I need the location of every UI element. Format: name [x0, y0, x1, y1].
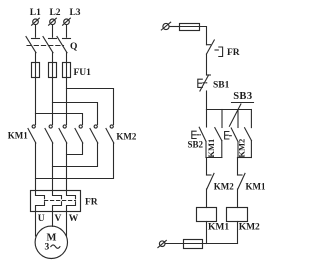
wire KM1 aux bottom [221, 141, 223, 158]
swap link KM2 c1 to phase3 [67, 143, 83, 155]
svg-text:KM1: KM1 [246, 182, 266, 192]
drop SB2 [206, 110, 208, 128]
FR heater 1 [36, 191, 45, 212]
KM1 coil [197, 208, 217, 222]
SB3 leader line [229, 104, 241, 126]
svg-text:FR: FR [227, 48, 240, 58]
svg-text:FU1: FU1 [74, 68, 92, 78]
control fuse top [180, 24, 200, 31]
wire KM1 coil to bottom bus [206, 222, 208, 244]
fuse FU1 element 3 [63, 63, 71, 78]
KM2 NC interlock [207, 173, 215, 189]
start button SB2 [192, 127, 206, 141]
svg-text:SB3: SB3 [233, 91, 252, 102]
KM1 aux contact [215, 128, 222, 141]
svg-text:W: W [69, 214, 79, 224]
svg-text:L3: L3 [69, 8, 80, 18]
control terminal bottom [158, 240, 166, 247]
switch Q pole 1 [26, 37, 40, 53]
wire phase1 down to KM1 contact [35, 78, 37, 125]
switch Q pole 3 [57, 37, 71, 53]
control terminal top [161, 22, 170, 30]
svg-text:KM1: KM1 [208, 223, 229, 233]
wire V to motor [52, 212, 54, 227]
KM2 main contact 2 [90, 125, 98, 143]
KM2 main contact 1 [75, 125, 83, 143]
wire phase3 down to KM1 contact [66, 78, 68, 125]
FR contact hook [219, 47, 223, 57]
left merge bar [206, 157, 222, 159]
motor tilde [51, 245, 60, 248]
svg-text:KM2: KM2 [214, 182, 234, 192]
wire FR to SB1 [206, 54, 208, 75]
drop KM1 aux [221, 110, 223, 128]
wire phase2 down to KM1 contact [52, 78, 54, 125]
terminal L3 [63, 18, 71, 25]
bottom bus [165, 243, 238, 245]
wire switch to fuse 1 [35, 53, 37, 63]
thermal relay FR box [31, 191, 81, 212]
FR NC contact [207, 40, 219, 54]
start button SB3 contact [225, 128, 238, 142]
svg-text:V: V [55, 214, 62, 224]
control bus [207, 109, 252, 111]
branch wire phase3 to KM2 right [67, 89, 114, 125]
KM1 main contact 3 [59, 125, 67, 143]
wire L1 to switch [35, 25, 37, 38]
svg-text:Q: Q [70, 42, 77, 52]
wire KM2 coil to bottom bus [237, 222, 239, 244]
KM2 coil [227, 208, 248, 222]
wire left branch to interlock [206, 158, 208, 176]
wire KM2 aux bottom [250, 141, 252, 158]
wire fuse to rail corner [200, 27, 207, 45]
svg-text:FR: FR [85, 198, 98, 208]
svg-text:SB2: SB2 [188, 140, 204, 150]
wire terminal to control fuse [169, 26, 179, 28]
switch Q pole 2 [43, 37, 57, 53]
switch Q linkage dashed [27, 45, 64, 47]
KM1 main contact 1 [28, 125, 36, 143]
wire interlock to KM1 coil [206, 189, 208, 208]
wire U to motor [35, 212, 37, 237]
FR linkage dashed [45, 200, 76, 202]
KM1 main contact 2 [45, 125, 53, 143]
wire L3 to switch [66, 25, 68, 38]
wire SB1 to bus [206, 91, 208, 110]
svg-text:3: 3 [45, 243, 50, 253]
terminal L2 [49, 18, 57, 25]
wire right branch to interlock [237, 158, 239, 176]
KM2 main contact 3 [106, 125, 114, 143]
swap link KM2 c2 to phase2 [53, 143, 98, 167]
svg-text:KM2: KM2 [239, 223, 260, 233]
FR heater 2 [53, 191, 62, 212]
KM2 aux contact [245, 128, 252, 141]
swap link KM2 c3 to phase1 [36, 143, 114, 179]
wire L2 to switch [52, 25, 54, 38]
terminal L1 [32, 18, 40, 25]
wire W to motor [66, 212, 68, 237]
wire KM1 c1 down to FR [35, 143, 37, 191]
wire SB3 bottom [237, 142, 239, 158]
svg-text:SB1: SB1 [213, 81, 230, 91]
wire KM1 c2 down to FR [52, 143, 54, 191]
wire switch to fuse 3 [66, 53, 68, 63]
fuse FU1 element 1 [32, 63, 40, 78]
wire switch to fuse 2 [52, 53, 54, 63]
fuse FU1 element 2 [49, 63, 57, 78]
drop KM2 aux [250, 110, 252, 128]
svg-text:U: U [38, 214, 45, 224]
KM1 NC interlock [238, 173, 246, 189]
branch wire phase1 to KM2 left [36, 114, 83, 125]
drop SB3 [237, 110, 239, 128]
branch wire phase2 to KM2 middle [53, 103, 98, 125]
svg-text:KM2: KM2 [116, 132, 136, 142]
wire KM1 c3 down to FR [66, 143, 68, 191]
motor M circle [35, 226, 67, 258]
svg-text:KM1: KM1 [206, 139, 216, 158]
svg-text:KM1: KM1 [8, 130, 28, 140]
SB3 label underline [232, 102, 254, 104]
right merge bar [238, 157, 252, 159]
svg-text:L2: L2 [49, 8, 60, 18]
stop button SB1 [198, 75, 211, 91]
control fuse bottom [184, 240, 203, 249]
wire SB2 bottom [205, 141, 207, 157]
wire interlock to KM2 coil [237, 189, 239, 208]
FR heater 3 [67, 191, 76, 212]
svg-text:L1: L1 [30, 8, 41, 18]
